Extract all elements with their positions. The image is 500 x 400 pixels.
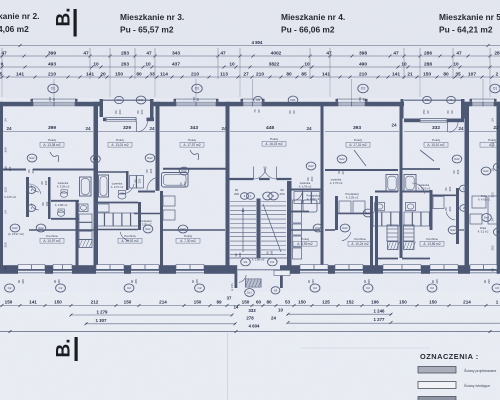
wall divider apt5 bbox=[400, 106, 403, 258]
top exterior wall segment middle bbox=[154, 102, 405, 107]
boxes apt4 hall top bbox=[294, 192, 302, 204]
apt5 washer bbox=[433, 197, 444, 209]
pencil mark room3 bbox=[190, 150, 199, 160]
door circle Dw2 upper 486,171 bbox=[481, 167, 491, 175]
door circle Dw2 mid 41,228 bbox=[36, 224, 46, 232]
apt2 kitchen west wall bbox=[76, 201, 79, 267]
shelf boxes apt3b bbox=[163, 196, 175, 206]
door circle Dw3 mid 368,213 bbox=[363, 209, 373, 217]
kitchen counter apt4 bbox=[373, 212, 382, 226]
legend box bottom bbox=[418, 397, 456, 400]
door circle Dw2 upper 150,158 bbox=[145, 154, 155, 162]
staircase left wall bbox=[226, 102, 230, 274]
apt5 hall wall bbox=[431, 194, 457, 196]
door circle Dw2 mid 486.5,217.5 bbox=[482, 214, 492, 222]
vent ladder apt5 bbox=[404, 225, 415, 241]
door circle 2 mid 267.5,196 bbox=[263, 192, 273, 200]
door circle Dw2 mid 345,228 bbox=[340, 224, 350, 232]
entrance steps hatched bbox=[246, 279, 262, 287]
apt4/5 kitchen south walls bbox=[375, 258, 398, 260]
door circle F1 bbox=[447, 96, 456, 103]
washbasin apt3 bbox=[96, 204, 109, 212]
fixtures apt4 hall shelves bbox=[293, 200, 302, 211]
apt5 balcony front line bbox=[404, 99, 461, 101]
room332 south wall bbox=[403, 168, 441, 170]
column circle C2 9.5 bbox=[5, 284, 15, 292]
entrance door circle Dz1 bbox=[245, 289, 255, 297]
apt3 balcony front line bbox=[103, 99, 150, 101]
door arcs midband bbox=[29, 184, 41, 194]
legend box sciany projektowane bbox=[418, 367, 456, 374]
door circle D61 b bbox=[288, 96, 298, 104]
column circle C2 315 bbox=[310, 284, 320, 292]
window designator circle O1 c bbox=[358, 84, 368, 93]
apt3 balcony posts bbox=[100, 99, 104, 117]
door circle Dw2 upper 184,171 bbox=[179, 167, 189, 175]
bathtub apt5 vertical bbox=[404, 175, 416, 192]
apt5 bath south wall bbox=[402, 191, 430, 193]
apt5 bath east wall bbox=[430, 190, 433, 230]
apt4 west wall bbox=[375, 196, 378, 267]
small fixtures right edge bbox=[472, 196, 486, 208]
apt2 toilet a bbox=[60, 192, 67, 198]
bathtub apt2 vertical bbox=[80, 177, 92, 196]
door circle 2 mid 273.5,196 bbox=[269, 192, 279, 200]
room448 door arc left bbox=[253, 167, 255, 180]
entrance porch walls bbox=[235, 269, 238, 288]
apt4 hall door arc bbox=[294, 190, 302, 201]
apt4 hall south wall bbox=[292, 211, 310, 213]
staircase treads right flight bbox=[261, 201, 286, 203]
corridor walls apt2 bbox=[3, 169, 26, 171]
bottom exterior wall piers bbox=[0, 265, 18, 274]
entrance door arc bbox=[239, 275, 246, 282]
room343 south wall bbox=[163, 168, 226, 170]
apt5 door circle a bbox=[460, 185, 468, 192]
room448 door arc right bbox=[276, 167, 278, 180]
stove hatched apt5 bbox=[404, 242, 415, 250]
stair top vestibule circle pair left bbox=[241, 193, 249, 200]
stair door circle D1 a bbox=[241, 258, 251, 266]
porch window box bbox=[274, 270, 290, 275]
kitchen counter apt5 bbox=[404, 212, 412, 226]
wall apt4/apt5 bbox=[465, 102, 470, 267]
apt5 balcony posts bbox=[401, 99, 404, 119]
window circle O5 bbox=[254, 96, 263, 103]
window center guides top bbox=[53, 79, 55, 102]
door circle Dw2 mid 453,230 bbox=[448, 226, 458, 234]
apt5 door circle b bbox=[460, 205, 468, 212]
room393 south wall bbox=[325, 169, 398, 171]
column circle C2 199.5 bbox=[195, 284, 205, 292]
apt3 corridor arc bbox=[147, 177, 157, 190]
apt3 recessed wall and window bbox=[103, 118, 154, 122]
window circle TO bbox=[423, 96, 432, 103]
door circle Dw2 upper 342,159 bbox=[337, 155, 347, 163]
stair lobby floor line bbox=[229, 257, 287, 259]
scan noise overlay bbox=[0, 0, 1, 1]
apt3 bath north wall bbox=[98, 171, 126, 173]
apt5 recessed top wall bbox=[404, 119, 464, 123]
door circle Dw2 upper 311,166 bbox=[306, 162, 316, 170]
boxes apt3 closet bbox=[130, 176, 137, 189]
apt2 bath/wc divider bbox=[51, 200, 79, 202]
stove hatched apt4 bbox=[388, 242, 399, 250]
bathtub apt3b horizontal bbox=[162, 173, 189, 188]
apt4 bath south wall bbox=[375, 191, 398, 193]
right edge circles bbox=[493, 163, 500, 171]
column circle C2 368 bbox=[363, 284, 373, 292]
apt2 door circle b bbox=[27, 205, 35, 212]
wall apt4 hall/room bbox=[321, 106, 324, 266]
apt2 toilet b bbox=[57, 211, 64, 217]
door circle Dw2 upper 95.5,159 bbox=[91, 155, 101, 163]
window designator circle O1 a bbox=[48, 84, 58, 93]
wall apt2/apt3 bbox=[94, 102, 99, 267]
bathtub apt4 vertical bbox=[386, 175, 398, 192]
corridor walls apt4 bbox=[230, 178, 292, 180]
door circle Dw2 mid 15,228 bbox=[10, 224, 20, 232]
fold line vertical bbox=[227, 333, 229, 400]
washbasin apt2 bbox=[79, 204, 88, 212]
apt3 bath south wall bbox=[98, 202, 138, 204]
window designator circle O1 b bbox=[192, 84, 202, 93]
pencil mark room6 bbox=[420, 150, 434, 161]
toilet apt3 bbox=[118, 193, 126, 199]
apt2 door circle a bbox=[27, 187, 35, 194]
stove hatched apt2 bbox=[79, 240, 92, 248]
right exterior wall bbox=[497, 102, 500, 274]
kitchen boxes apt3 bbox=[96, 213, 104, 226]
pencil mark room5 bbox=[354, 150, 366, 166]
staircase stringer bbox=[257, 199, 261, 259]
door circle Dw2 mid 318,228 bbox=[313, 224, 323, 232]
staircase treads left flight bbox=[230, 201, 256, 203]
washbasin apt4 bbox=[375, 203, 385, 211]
staircase up arrow bbox=[263, 204, 281, 252]
bathtub apt3 vertical bbox=[99, 175, 109, 197]
lower room top walls bbox=[29, 229, 94, 231]
stair door circle D1 b bbox=[268, 258, 278, 266]
vent ladder apt4 bbox=[387, 225, 398, 241]
corridor walls apt3 bbox=[138, 191, 155, 193]
door circle Dw2 mid 183,229 bbox=[178, 225, 188, 233]
top wall window openings bbox=[33, 101, 75, 106]
apt5 door arc bbox=[446, 212, 455, 220]
top exterior wall segment right bbox=[464, 102, 500, 107]
apt2 hall-bath divider bbox=[48, 177, 51, 219]
apt2 wc/kitchen divider bbox=[51, 218, 79, 220]
bottom wall windows and sills bbox=[18, 265, 45, 271]
door circle D61 a bbox=[136, 96, 146, 104]
column circle C2 129 bbox=[124, 284, 134, 292]
apt3 bath east wall upper bbox=[126, 171, 129, 190]
pencil mark room1 bbox=[50, 152, 59, 162]
entrance door gap bbox=[237, 266, 280, 274]
fold line horizontal bbox=[300, 347, 430, 349]
column circle C2 60.5 bbox=[56, 284, 66, 292]
top exterior wall segment left bbox=[0, 102, 100, 107]
staircase right wall bbox=[287, 181, 292, 274]
wall divider apt3 bbox=[156, 102, 160, 191]
apt3 balcony door arc bbox=[136, 121, 138, 132]
legend box sciany istniejace bbox=[418, 382, 456, 389]
column circle C3 497 bbox=[492, 284, 500, 292]
door circle Dw2 mid 148,229 bbox=[143, 225, 153, 233]
door circle CU bbox=[115, 96, 124, 103]
door circle Dw2 upper 457,159 bbox=[452, 155, 462, 163]
door circle Dw2 upper 32,158 bbox=[27, 154, 37, 162]
left exterior wall bbox=[0, 102, 3, 274]
column circle C2 432 bbox=[427, 284, 437, 292]
washbasin apt5 bbox=[406, 203, 416, 211]
window designator circle O1 d bbox=[490, 84, 500, 93]
kitchen counter apt2 strip bbox=[79, 214, 92, 222]
apt5 balcony door arc bbox=[448, 118, 458, 123]
entrance circle G6 bbox=[271, 287, 280, 294]
